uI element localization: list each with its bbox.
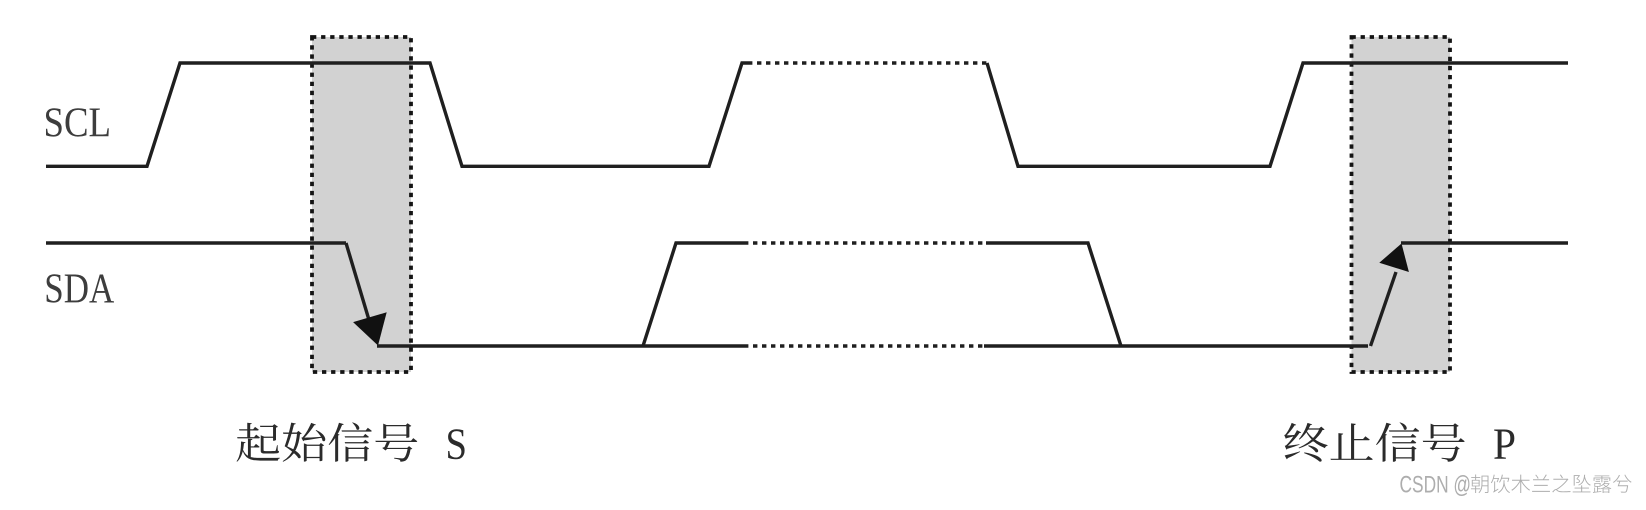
wire SDA dotted low segment xyxy=(744,344,984,347)
wire SDA dotted high segment xyxy=(744,241,986,244)
wire SCL falling edge, low segment and final rise to high xyxy=(987,63,1568,166)
svg-text:CSDN @: CSDN @ xyxy=(1400,472,1472,499)
watermark chinese 朝饮木兰之坠露兮 xyxy=(1471,475,1632,494)
label stop signal chinese 终止信号 xyxy=(1284,422,1464,461)
wire SCL left low + first clock high pulse xyxy=(46,63,748,166)
svg-text:SCL: SCL xyxy=(44,101,112,147)
start-condition highlight box S xyxy=(312,37,411,372)
wire SCL dotted high segment xyxy=(748,61,987,64)
stop-condition arrowhead xyxy=(1379,244,1409,273)
wire SDA low segment before stop xyxy=(984,344,1368,347)
start-condition arrowhead xyxy=(353,312,387,345)
wire SDA high segment at right xyxy=(1401,241,1568,244)
wire SDA low segment after start xyxy=(377,344,744,347)
wire SDA high segment at left xyxy=(46,241,346,244)
stop-condition arrow shaft (SDA rising while SCL high) xyxy=(1371,272,1397,346)
svg-text:P: P xyxy=(1493,419,1516,468)
svg-text:S: S xyxy=(446,419,468,468)
start-condition arrow shaft (SDA falling while SCL high) xyxy=(346,243,372,330)
wire SDA mid high solid part right and fall to low xyxy=(986,243,1121,346)
wire SDA mid rise to high (data bit trapezoid, solid part left) xyxy=(643,243,744,346)
label start signal chinese 起始信号 xyxy=(237,422,418,461)
stop-condition highlight box P xyxy=(1352,37,1451,372)
svg-text:SDA: SDA xyxy=(44,266,115,312)
